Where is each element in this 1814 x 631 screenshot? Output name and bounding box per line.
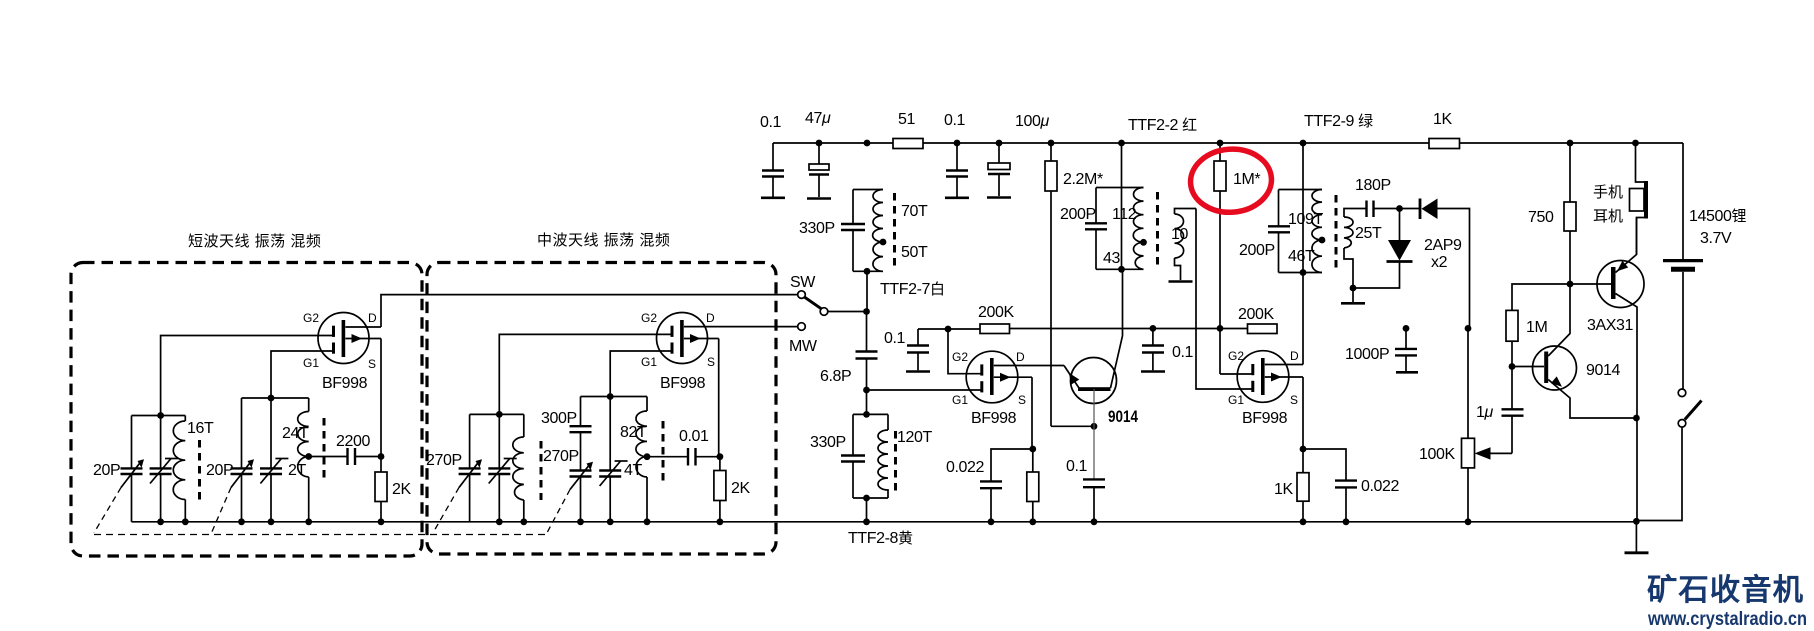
capacitor trimmer (SW antenna) <box>150 416 178 522</box>
svg-text:D: D <box>1016 350 1025 364</box>
resistor 1M (AF bias) <box>1506 284 1570 367</box>
svg-text:9014: 9014 <box>1586 362 1620 379</box>
svg-text:51: 51 <box>898 111 915 128</box>
svg-text:G1: G1 <box>641 355 657 369</box>
svg-text:70T: 70T <box>901 203 928 220</box>
transformer TTF2-7 primary loop with capacitor 330P <box>799 190 883 272</box>
label TTF2-8 yellow <box>848 530 913 547</box>
svg-text:100K: 100K <box>1419 446 1455 463</box>
svg-text:109T: 109T <box>1288 211 1323 228</box>
resistor 1K (series in rail) <box>1429 111 1460 149</box>
svg-text:200P: 200P <box>1060 206 1096 223</box>
wire Q7 G2 to MW antenna tank <box>499 334 670 414</box>
svg-text:14500锂: 14500锂 <box>1689 208 1747 225</box>
svg-text:0.01: 0.01 <box>679 428 709 445</box>
svg-text:G1: G1 <box>303 356 319 370</box>
wire D of Q3 up to TTF2-9 <box>1302 273 1304 365</box>
node 24T/2T tap <box>305 453 312 460</box>
capacitor trimmer (MW antenna) <box>488 414 516 521</box>
inductor 120T <box>878 429 932 498</box>
svg-text:www.crystalradio.cn: www.crystalradio.cn <box>1647 608 1807 630</box>
node TTF2-9 bottom <box>1300 269 1307 276</box>
transistor Q5 3AX31 output <box>1570 218 1644 521</box>
svg-text:TTF2-2 红: TTF2-2 红 <box>1128 117 1197 134</box>
capacitor 100u electrolytic <box>987 113 1050 198</box>
svg-text:46T: 46T <box>1288 248 1315 265</box>
resistor 750 <box>1528 140 1576 284</box>
svg-text:24T: 24T <box>282 425 309 442</box>
node switch common <box>863 308 870 315</box>
node bus/output ground <box>1633 518 1640 552</box>
capacitor 0.022 <box>946 449 1033 522</box>
inductor 82T <box>620 397 647 457</box>
inductor MW antenna coil <box>513 414 524 521</box>
svg-text:100μ: 100μ <box>1015 113 1050 130</box>
wire Q7 G1 to MW osc tank <box>610 351 670 397</box>
svg-text:S: S <box>1290 393 1298 407</box>
svg-text:6.8P: 6.8P <box>820 368 851 385</box>
node output emitter junction <box>1633 415 1640 422</box>
svg-text:16T: 16T <box>187 420 214 437</box>
box mediumwave dashed <box>427 232 776 554</box>
svg-text:20P: 20P <box>206 462 233 479</box>
svg-text:S: S <box>368 357 376 371</box>
node Q7 source junction <box>717 339 724 461</box>
wire S of Q3 down <box>1300 377 1307 452</box>
diode 2AP9 shunt <box>1353 209 1462 289</box>
svg-text:0.1: 0.1 <box>1172 344 1194 361</box>
node 82T/4T tap <box>644 453 651 460</box>
node TTF2-9 tap <box>1319 237 1326 244</box>
node AF input <box>1509 363 1544 370</box>
svg-text:330P: 330P <box>810 434 846 451</box>
wire S of Q1 down <box>1029 377 1036 452</box>
svg-text:112: 112 <box>1112 206 1137 223</box>
inductor 70T (TTF2-7 primary upper) <box>873 190 928 243</box>
capacitor 0.1 (IF bypass) <box>1141 325 1194 372</box>
svg-text:200K: 200K <box>1238 306 1274 323</box>
svg-text:0.022: 0.022 <box>1361 478 1400 495</box>
svg-text:10: 10 <box>1171 226 1188 243</box>
svg-text:0.1: 0.1 <box>884 330 906 347</box>
inductor 2T <box>288 457 309 522</box>
svg-text:D: D <box>706 311 715 325</box>
svg-text:20P: 20P <box>93 462 120 479</box>
core TTF2-7 dashed <box>893 193 896 266</box>
svg-text:TTF2-9 绿: TTF2-9 绿 <box>1304 113 1373 130</box>
node rail/TTF2-7 feed <box>864 140 871 147</box>
svg-text:矿石收音机: 矿石收音机 <box>1647 573 1804 607</box>
core 24T dashed <box>323 418 326 482</box>
svg-text:MW: MW <box>789 338 818 355</box>
svg-text:2.2M*: 2.2M* <box>1063 171 1103 188</box>
wire G1 of Q3 from secondary <box>1196 209 1253 390</box>
svg-text:SW: SW <box>790 274 816 291</box>
svg-text:G1: G1 <box>1228 393 1244 407</box>
svg-text:300P: 300P <box>541 410 577 427</box>
capacitor 300P padder <box>541 397 592 471</box>
ground (secondary 10) <box>1169 280 1193 283</box>
svg-text:耳机: 耳机 <box>1593 208 1623 225</box>
ground (main) <box>1625 551 1649 554</box>
wire B+ top rail <box>773 142 1683 144</box>
switch SW/MW band select <box>789 274 867 355</box>
speaker phone earpiece <box>1593 140 1648 255</box>
capacitor 2200 feedback <box>309 433 381 465</box>
svg-text:BF998: BF998 <box>971 410 1017 427</box>
transformer TTF2-9 primary loop with capacitor 200P <box>1239 190 1322 273</box>
svg-text:270P: 270P <box>426 452 462 469</box>
svg-text:82T: 82T <box>620 424 647 441</box>
red highlight ellipse around 1M* <box>1188 146 1273 214</box>
node G1 junction of mixer <box>863 387 981 394</box>
capacitor 270P variable (MW antenna) <box>426 414 482 521</box>
wire Q6 drain to SW contact <box>381 295 798 327</box>
svg-text:120T: 120T <box>897 429 932 446</box>
svg-text:0.1: 0.1 <box>1066 458 1088 475</box>
svg-text:BF998: BF998 <box>660 375 706 392</box>
battery 14500 3.7V <box>1663 143 1747 389</box>
svg-text:G2: G2 <box>641 311 657 325</box>
transistor Q4 9014 AF amp <box>1533 284 1637 418</box>
capacitor 20P variable (SW osc) <box>206 398 254 522</box>
capacitor 0.1 at first mixer G2 <box>884 329 930 372</box>
svg-text:200P: 200P <box>1239 242 1275 259</box>
node MW antenna tank top <box>470 411 524 418</box>
resistor 1M* <box>1214 140 1260 374</box>
inductor 109T (TTF2-9 primary upper) <box>1288 190 1323 241</box>
node TTF2-7 bottom / feed <box>864 268 871 312</box>
switch power <box>1636 389 1701 521</box>
svg-text:0.022: 0.022 <box>946 459 985 476</box>
capacitor 0.022 (Q3 source) <box>1303 449 1400 522</box>
node TTF2-2 tap <box>1140 239 1147 246</box>
svg-text:2200: 2200 <box>336 433 370 450</box>
node bus junctions left boxes <box>157 518 1471 525</box>
capacitor trimmer (SW osc) <box>260 398 288 522</box>
svg-text:43: 43 <box>1103 250 1120 267</box>
capacitor 47u electrolytic <box>805 110 831 199</box>
svg-text:G2: G2 <box>1228 349 1244 363</box>
inductor 4T <box>624 457 647 522</box>
svg-text:中波天线 振荡 混频: 中波天线 振荡 混频 <box>537 232 670 249</box>
potentiometer 100K <box>1419 328 1512 521</box>
svg-text:1K: 1K <box>1433 111 1452 128</box>
capacitor 20P variable (SW antenna) <box>93 416 144 522</box>
core MW antenna dashed <box>540 441 543 500</box>
core TTF2-9 dashed <box>1335 195 1338 268</box>
resistor 200K (second) <box>1238 306 1277 334</box>
inductor 112 (TTF2-2 primary upper) <box>1112 188 1144 243</box>
transistor Q2 9014 oscillator <box>1064 269 1139 426</box>
node 25T cold end <box>1350 285 1357 302</box>
svg-text:3AX31: 3AX31 <box>1587 317 1634 334</box>
diode 2AP9 series <box>1400 199 1470 329</box>
svg-text:0.1: 0.1 <box>760 114 782 131</box>
svg-text:50T: 50T <box>901 244 928 261</box>
wire to oscillator tank top <box>863 390 870 418</box>
wire Q6 G1 to osc tank <box>271 351 332 398</box>
resistor 2.2M* <box>1045 140 1103 427</box>
svg-text:2K: 2K <box>392 481 411 498</box>
svg-text:1M*: 1M* <box>1233 171 1260 188</box>
capacitor 1u coupling <box>1476 367 1524 454</box>
wire G2 bias line <box>918 326 980 333</box>
svg-text:x2: x2 <box>1431 254 1448 271</box>
label TTF2-7 white <box>880 281 945 298</box>
node TTF2-2 bottom <box>1118 266 1125 273</box>
node detector <box>1396 205 1403 212</box>
resistor (source bias, unlabeled) <box>1027 449 1039 522</box>
capacitor 0.1 (rail bypass, mid) <box>944 112 969 198</box>
label TTF2-9 green <box>1304 113 1373 130</box>
svg-text:D: D <box>1290 349 1299 363</box>
node 1M*/200K/G2 junction <box>1217 325 1253 374</box>
node MW osc tank top <box>581 393 648 400</box>
inductor 25T (TTF2-9 secondary) <box>1344 209 1382 289</box>
wire Q6 G2 to antenna tank <box>161 336 332 416</box>
transistor Q7 BF998 MW converter <box>641 311 798 392</box>
core 16T dashed <box>198 440 201 500</box>
svg-text:手机: 手机 <box>1593 184 1623 201</box>
capacitor trimmer (MW osc) <box>599 397 627 522</box>
wire G2 drop to gate <box>948 329 982 374</box>
svg-text:2T: 2T <box>288 462 306 479</box>
resistor 2K (SW source) <box>375 457 411 522</box>
inductor 43 (TTF2-2 primary lower) <box>1103 242 1144 269</box>
core TTF2-8 dashed <box>894 431 897 492</box>
resistor 2K (MW source) <box>714 457 751 522</box>
box shortwave dashed <box>71 233 422 556</box>
capacitor 6.8P <box>820 312 878 391</box>
svg-text:750: 750 <box>1528 209 1554 226</box>
capacitor 1000P <box>1345 325 1418 372</box>
svg-text:G2: G2 <box>952 350 968 364</box>
svg-text:TTF2-8黄: TTF2-8黄 <box>848 530 913 547</box>
svg-text:330P: 330P <box>799 220 835 237</box>
svg-text:2K: 2K <box>731 480 750 497</box>
svg-text:1000P: 1000P <box>1345 346 1389 363</box>
inductor 46T (TTF2-9 primary lower) <box>1288 240 1322 273</box>
core 82T dashed <box>662 421 665 483</box>
svg-text:47μ: 47μ <box>805 110 831 127</box>
node SW osc tank top <box>242 395 309 402</box>
svg-text:180P: 180P <box>1355 177 1391 194</box>
node Q6 source junction <box>378 339 385 460</box>
capacitor 0.1 (rail bypass, left) <box>760 114 785 198</box>
node volume top <box>1465 325 1472 332</box>
svg-text:G1: G1 <box>952 393 968 407</box>
svg-text:25T: 25T <box>1355 225 1382 242</box>
node SW antenna tank top <box>132 412 186 419</box>
wire rail to TTF2-9 bottom <box>1300 140 1307 273</box>
inductor 10 (TTF2-2 secondary) <box>1171 209 1196 281</box>
svg-text:3.7V: 3.7V <box>1700 230 1732 247</box>
wire tuning gang dashed link <box>94 488 570 535</box>
capacitor 180P <box>1355 177 1400 217</box>
svg-text:2AP9: 2AP9 <box>1424 237 1462 254</box>
svg-text:1K: 1K <box>1274 481 1293 498</box>
capacitor 270P variable (MW osc) <box>543 448 593 522</box>
label TTF2-2 red <box>1128 117 1197 134</box>
inductor 50T (TTF2-7 primary lower) <box>873 242 928 271</box>
svg-text:S: S <box>1018 393 1026 407</box>
node TTF2-7 tap <box>880 239 887 246</box>
svg-text:1μ: 1μ <box>1476 404 1494 421</box>
inductor 16T <box>173 416 214 522</box>
svg-text:200K: 200K <box>978 304 1014 321</box>
svg-text:BF998: BF998 <box>1242 410 1288 427</box>
resistor 1K (Q3 source) <box>1274 449 1309 522</box>
svg-text:BF998: BF998 <box>322 375 368 392</box>
svg-text:G2: G2 <box>303 311 319 325</box>
svg-text:S: S <box>707 355 715 369</box>
tank TTF2-8 loop with capacitor 330P <box>810 414 888 498</box>
core TTF2-2 dashed <box>1156 192 1159 265</box>
svg-text:9014: 9014 <box>1108 408 1139 426</box>
transformer TTF2-2 primary loop with capacitor 200P <box>1060 188 1144 270</box>
capacitor 0.1 (osc emitter bypass) <box>1066 426 1105 522</box>
node tank bottom to bus <box>863 495 870 522</box>
wire ground bus <box>132 521 1637 523</box>
svg-text:D: D <box>368 311 377 325</box>
wire rail to TTF2-2 bottom <box>1118 140 1125 270</box>
svg-text:4T: 4T <box>624 462 642 479</box>
transistor Q3 BF998 second mixer/IF <box>1228 349 1303 427</box>
capacitor 0.01 feedback <box>647 428 720 466</box>
svg-text:TTF2-7白: TTF2-7白 <box>880 281 945 298</box>
inductor 24T <box>282 398 309 457</box>
svg-text:1M: 1M <box>1526 319 1547 336</box>
svg-text:短波天线 振荡 混频: 短波天线 振荡 混频 <box>188 233 321 250</box>
svg-text:0.1: 0.1 <box>944 112 966 129</box>
transistor Q1 BF998 first mixer <box>952 350 1064 427</box>
ground (detector) <box>1341 302 1365 305</box>
transistor Q6 BF998 SW converter <box>303 311 381 392</box>
node 3AX31 base <box>1567 281 1574 288</box>
wire 9014 base network <box>1051 389 1097 430</box>
svg-text:270P: 270P <box>543 448 579 465</box>
watermark crystalradio logo <box>1647 573 1807 630</box>
resistor 51 (series in rail) <box>893 111 923 149</box>
resistor 200K (first) <box>978 304 1248 334</box>
